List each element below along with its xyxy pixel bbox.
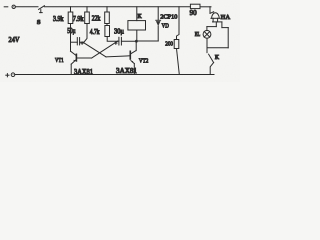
wire VT2 collector node to diode VD: [136, 40, 158, 42]
wire lamp bottom horizontal: [207, 47, 228, 49]
svg-text:EL: EL: [195, 32, 201, 38]
capacitor C1 50u electrolytic: [71, 38, 84, 45]
relay contact K: [209, 54, 214, 74]
transistor VT1 3AX81: [71, 51, 77, 74]
svg-text:7.9k: 7.9k: [73, 16, 84, 23]
lamp EL: [203, 27, 211, 53]
wire right vertical down to lamp bottom rail: [227, 28, 229, 48]
svg-text:30μ: 30μ: [114, 28, 124, 35]
wire top rail from switch to 90 ohm resistor: [44, 6, 190, 8]
wire bottom rail: [15, 74, 214, 76]
wire from minus terminal to switch S: [15, 6, 38, 8]
svg-text:VT1: VT1: [55, 57, 64, 64]
wire VT2 base: [106, 56, 130, 57]
wire coupling C2 to VT1 base (crossing diagonal): [92, 41, 118, 58]
resistor R3 22k: [105, 7, 110, 26]
wire coupling C1 to VT2 base (crossing diagonal): [84, 43, 107, 57]
svg-text:90: 90: [190, 10, 198, 17]
switch S: [39, 6, 45, 13]
transistor VT2 3AX81: [130, 41, 136, 74]
capacitor C2 30u electrolytic: [115, 37, 137, 45]
svg-text:4.7k: 4.7k: [90, 29, 100, 36]
bell HA: [210, 7, 222, 28]
svg-text:VD: VD: [162, 23, 170, 30]
wire VT1 base horizontal: [77, 57, 92, 59]
svg-text:200: 200: [165, 40, 173, 47]
resistor R5 200: [174, 7, 179, 75]
wire bell left leg to lamp top: [207, 26, 216, 28]
resistor R1 3.9k: [68, 7, 73, 51]
node minus terminal of 24V supply: [4, 5, 15, 8]
relay coil K: [128, 7, 146, 41]
svg-text:HA: HA: [221, 14, 231, 21]
node plus terminal of 24V supply: [6, 73, 15, 77]
resistor R4 4.7k: [105, 26, 118, 42]
svg-text:2CP10: 2CP10: [160, 13, 177, 20]
svg-text:3.9k: 3.9k: [53, 16, 64, 23]
resistor R2 7.9k: [84, 7, 90, 43]
svg-text:S: S: [37, 19, 41, 26]
svg-text:3AX81: 3AX81: [116, 67, 137, 75]
diode VD 2CP10: [156, 7, 161, 41]
svg-text:50μ: 50μ: [67, 28, 76, 35]
svg-text:24V: 24V: [9, 37, 20, 44]
resistor R6 90 (horizontal, in bell branch): [190, 4, 211, 8]
svg-text:22k: 22k: [92, 16, 101, 23]
node junction VT2 collector: [135, 40, 138, 43]
wire bell right leg to right vertical: [222, 27, 228, 29]
svg-text:VT2: VT2: [139, 57, 149, 64]
